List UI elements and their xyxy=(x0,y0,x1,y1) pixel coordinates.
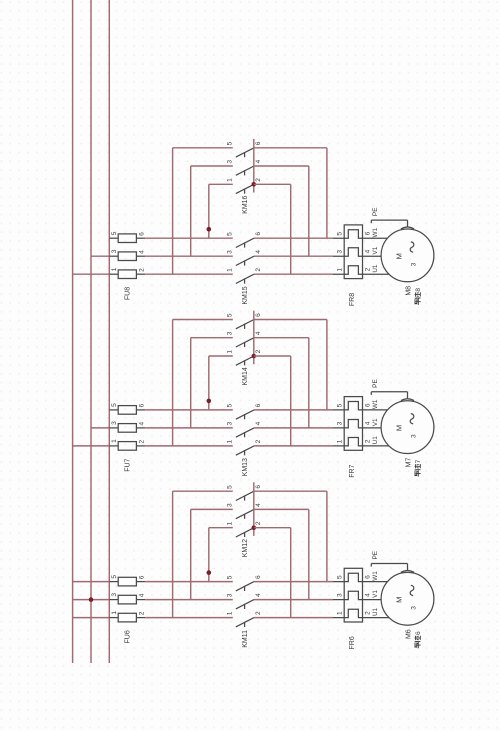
svg-text:5: 5 xyxy=(227,313,234,317)
svg-text:1: 1 xyxy=(111,267,118,271)
svg-text:V1: V1 xyxy=(372,246,379,254)
wire row4 to FR xyxy=(254,255,333,257)
wire L1 feed xyxy=(73,445,110,447)
wire upper row5 xyxy=(173,147,233,149)
wire upper contactor output bar xyxy=(253,311,255,365)
svg-text:1: 1 xyxy=(111,611,118,615)
contactor KM11 contact 5-6 xyxy=(227,575,262,591)
svg-text:4: 4 xyxy=(255,503,262,507)
wire L2 feed xyxy=(91,255,110,257)
wire upper row5 xyxy=(173,490,233,492)
wire upper row1 xyxy=(209,355,233,357)
thermal relay FR8 xyxy=(333,225,372,279)
svg-text:3: 3 xyxy=(227,422,234,426)
fuse FU6 pole 3-4 xyxy=(109,593,145,604)
junction bus2/row3 xyxy=(89,597,94,602)
wire row4 to FR xyxy=(254,599,333,601)
svg-text:KM13: KM13 xyxy=(242,458,249,476)
bus L3 xyxy=(108,0,110,663)
wire tap row1 to upper 5 xyxy=(172,320,174,446)
svg-text:3: 3 xyxy=(111,421,118,425)
wire tap row5 to upper 1 xyxy=(208,184,210,238)
svg-text:1: 1 xyxy=(227,350,234,354)
svg-text:5: 5 xyxy=(227,485,234,489)
svg-text:4: 4 xyxy=(365,593,372,597)
wire cross 4 down xyxy=(308,338,310,428)
heater element 1-2 xyxy=(333,266,363,274)
wire tap row1 to upper 5 xyxy=(172,148,174,274)
svg-text:4: 4 xyxy=(255,331,262,335)
fuse FU6 pole 5-6 xyxy=(109,575,145,586)
junction bar/row2 xyxy=(252,354,257,359)
contactor KM13 contact 1-2 xyxy=(227,439,262,455)
svg-text:2: 2 xyxy=(255,178,262,182)
wire upper out 6 xyxy=(254,319,327,321)
contactor KM11 contact 3-4 xyxy=(227,593,262,609)
heater element 5-6 xyxy=(333,402,363,410)
wire feed row1 xyxy=(73,617,110,619)
svg-text:3: 3 xyxy=(111,249,118,253)
svg-text:3: 3 xyxy=(227,593,234,597)
svg-text:5: 5 xyxy=(337,232,344,236)
wire upper out 4 xyxy=(254,508,309,510)
svg-text:3: 3 xyxy=(410,262,417,266)
svg-text:6: 6 xyxy=(139,232,146,236)
svg-text:6: 6 xyxy=(255,141,262,145)
wire upper row3 xyxy=(191,337,233,339)
wire W1 xyxy=(363,227,389,238)
svg-text:6: 6 xyxy=(365,231,372,235)
wire tap row5 to upper 1 xyxy=(208,356,210,410)
svg-text:2: 2 xyxy=(139,440,146,444)
svg-text:2: 2 xyxy=(255,268,262,272)
svg-text:5: 5 xyxy=(337,575,344,579)
svg-text:M8: M8 xyxy=(405,286,412,296)
heater element 1-2 xyxy=(333,438,363,446)
wire cross 6 down xyxy=(326,148,328,238)
svg-text:1: 1 xyxy=(227,178,234,182)
svg-text:5: 5 xyxy=(227,575,234,579)
svg-text:PE: PE xyxy=(372,379,379,388)
svg-text:M: M xyxy=(395,597,404,603)
heater element 3-4 xyxy=(333,420,363,428)
PE conductor xyxy=(371,379,414,401)
svg-text:U1: U1 xyxy=(372,436,379,445)
svg-text:4: 4 xyxy=(255,250,262,254)
svg-text:6: 6 xyxy=(415,631,422,635)
heater element 5-6 xyxy=(333,573,363,581)
svg-text:4: 4 xyxy=(139,422,146,426)
wire row6 to FR xyxy=(254,237,333,239)
wire upper row1 xyxy=(209,527,233,529)
svg-text:5: 5 xyxy=(111,231,118,235)
wire cross 2 down xyxy=(290,356,292,446)
wire row3 to contactor xyxy=(145,599,233,601)
junction bar/row2 xyxy=(252,182,257,187)
fuse FU8 pole 5-6 xyxy=(109,231,145,242)
svg-text:4: 4 xyxy=(139,593,146,597)
svg-text:2: 2 xyxy=(255,349,262,353)
wire upper row3 xyxy=(191,165,233,167)
svg-text:5: 5 xyxy=(227,141,234,145)
svg-text:4: 4 xyxy=(365,249,372,253)
svg-text:2: 2 xyxy=(365,439,372,443)
svg-text:5: 5 xyxy=(227,232,234,236)
contactor KM14 contact 3-4 xyxy=(227,331,262,347)
motor M6 xyxy=(381,572,434,625)
svg-text:FR6: FR6 xyxy=(349,636,356,649)
svg-text:7: 7 xyxy=(415,459,422,463)
wire row1 to contactor xyxy=(145,445,233,447)
svg-text:3: 3 xyxy=(410,434,417,438)
wire L1 feed xyxy=(73,273,110,275)
wire V1 xyxy=(363,246,383,256)
wire row6 to FR xyxy=(254,581,333,583)
svg-text:2: 2 xyxy=(365,267,372,271)
contactor KM16 contact 1-2 xyxy=(227,178,262,194)
wire row2 to FR xyxy=(254,445,333,447)
svg-text:FU8: FU8 xyxy=(125,287,132,300)
PE conductor xyxy=(371,207,414,229)
svg-text:KM16: KM16 xyxy=(242,195,249,213)
svg-text:W1: W1 xyxy=(372,227,379,237)
wire cross 2 down xyxy=(290,184,292,274)
wire L3 feed xyxy=(108,237,111,239)
svg-text:KM12: KM12 xyxy=(242,539,249,557)
wire tap row1 to upper 5 xyxy=(172,491,174,617)
contactor KM16 contact 5-6 xyxy=(227,141,262,157)
svg-text:2: 2 xyxy=(255,521,262,525)
junction tap row5 xyxy=(207,570,212,575)
svg-text:4: 4 xyxy=(255,421,262,425)
junction tap row5 xyxy=(207,399,212,404)
svg-text:1: 1 xyxy=(337,611,344,615)
svg-text:FR7: FR7 xyxy=(349,464,356,477)
wire upper contactor output bar xyxy=(253,139,255,193)
svg-text:1: 1 xyxy=(227,268,234,272)
wire row5 to contactor xyxy=(145,581,233,583)
wire row6 to FR xyxy=(254,409,333,411)
svg-text:FR8: FR8 xyxy=(349,293,356,306)
svg-text:3: 3 xyxy=(227,331,234,335)
wire U1 xyxy=(363,264,391,274)
svg-text:V1: V1 xyxy=(372,418,379,426)
fuse FU7 pole 5-6 xyxy=(109,403,145,414)
svg-text:6: 6 xyxy=(365,403,372,407)
wire row5 to contactor xyxy=(145,237,233,239)
wire upper contactor output bar xyxy=(253,482,255,536)
heater element 3-4 xyxy=(333,248,363,256)
svg-text:3: 3 xyxy=(410,606,417,610)
svg-text:4: 4 xyxy=(255,593,262,597)
svg-text:U1: U1 xyxy=(372,264,379,273)
wire L2 feed xyxy=(91,427,110,429)
svg-text:V1: V1 xyxy=(372,590,379,598)
contactor KM15 contact 5-6 xyxy=(227,232,262,248)
fuse FU6 pole 1-2 xyxy=(109,611,145,622)
svg-text:2: 2 xyxy=(255,439,262,443)
svg-text:PE: PE xyxy=(372,207,379,216)
heater element 5-6 xyxy=(333,230,363,238)
wire row4 to FR xyxy=(254,427,333,429)
fuse FU8 pole 3-4 xyxy=(109,249,145,260)
contactor KM15 contact 1-2 xyxy=(227,268,262,284)
svg-text:W1: W1 xyxy=(372,571,379,581)
svg-text:1: 1 xyxy=(337,439,344,443)
svg-text:2: 2 xyxy=(365,611,372,615)
wire tap row3 to upper 3 xyxy=(190,166,192,256)
wire cross 2 down xyxy=(290,528,292,618)
contactor KM13 contact 5-6 xyxy=(227,403,262,419)
svg-text:M: M xyxy=(395,425,404,431)
svg-text:3: 3 xyxy=(227,250,234,254)
wire feed row3 xyxy=(73,599,110,601)
wire cross 6 down xyxy=(326,320,328,410)
svg-text:2: 2 xyxy=(255,611,262,615)
svg-text:6: 6 xyxy=(255,403,262,407)
contactor KM14 contact 1-2 xyxy=(227,349,262,365)
wire upper row1 xyxy=(209,183,233,185)
fuse FU7 pole 1-2 xyxy=(109,439,145,450)
contactor KM12 contact 1-2 xyxy=(227,521,262,537)
wire upper out 2 xyxy=(254,183,291,185)
svg-text:5: 5 xyxy=(111,403,118,407)
svg-text:6: 6 xyxy=(365,575,372,579)
wire cross 6 down xyxy=(326,491,328,581)
PE conductor xyxy=(371,550,414,572)
wire tap row3 to upper 3 xyxy=(190,338,192,428)
svg-text:2: 2 xyxy=(139,268,146,272)
svg-text:FU6: FU6 xyxy=(125,630,132,643)
svg-text:3: 3 xyxy=(337,593,344,597)
svg-text:3: 3 xyxy=(337,421,344,425)
svg-text:1: 1 xyxy=(111,439,118,443)
svg-text:4: 4 xyxy=(255,159,262,163)
wire L3 feed xyxy=(108,409,111,411)
contactor KM12 contact 3-4 xyxy=(227,503,262,519)
svg-text:3: 3 xyxy=(337,250,344,254)
svg-text:6: 6 xyxy=(139,404,146,408)
wire W1 xyxy=(363,571,389,582)
thermal relay FR6 xyxy=(333,568,372,622)
svg-text:M: M xyxy=(395,253,404,259)
svg-text:M6: M6 xyxy=(405,629,412,639)
fuse FU7 pole 3-4 xyxy=(109,421,145,432)
wire upper out 6 xyxy=(254,490,327,492)
svg-text:2: 2 xyxy=(139,611,146,615)
svg-text:KM14: KM14 xyxy=(242,367,249,385)
wire tap row3 to upper 3 xyxy=(190,509,192,599)
wire U1 xyxy=(363,436,391,446)
wire upper out 4 xyxy=(254,337,309,339)
svg-text:3: 3 xyxy=(227,160,234,164)
junction tap row5 xyxy=(207,227,212,232)
fuse FU8 pole 1-2 xyxy=(109,267,145,278)
wire row2 to FR xyxy=(254,617,333,619)
svg-text:KM11: KM11 xyxy=(242,630,249,648)
svg-text:8: 8 xyxy=(415,288,422,292)
heater element 1-2 xyxy=(333,609,363,617)
wire feed row5 xyxy=(73,581,110,583)
svg-text:5: 5 xyxy=(337,403,344,407)
wire row1 to contactor xyxy=(145,617,233,619)
wire row3 to contactor xyxy=(145,255,233,257)
wire row2 to FR xyxy=(254,273,333,275)
svg-text:1: 1 xyxy=(337,268,344,272)
svg-text:4: 4 xyxy=(365,421,372,425)
bus L2 xyxy=(90,0,92,663)
wire V1 xyxy=(363,418,383,428)
wire upper out 6 xyxy=(254,147,327,149)
svg-text:6: 6 xyxy=(139,575,146,579)
wire upper out 2 xyxy=(254,355,291,357)
wire upper out 4 xyxy=(254,165,309,167)
svg-text:4: 4 xyxy=(139,250,146,254)
wire V1 xyxy=(363,590,383,600)
thermal relay FR7 xyxy=(333,397,372,451)
wire upper row5 xyxy=(173,319,233,321)
contactor KM16 contact 3-4 xyxy=(227,159,262,175)
svg-text:FU7: FU7 xyxy=(125,458,132,471)
svg-text:6: 6 xyxy=(255,485,262,489)
svg-text:1: 1 xyxy=(227,440,234,444)
wire cross 4 down xyxy=(308,509,310,599)
svg-text:U1: U1 xyxy=(372,607,379,616)
wire row3 to contactor xyxy=(145,427,233,429)
svg-text:W1: W1 xyxy=(372,399,379,409)
heater element 3-4 xyxy=(333,591,363,599)
motor M7 xyxy=(381,401,434,454)
wire upper row3 xyxy=(191,508,233,510)
wire cross 4 down xyxy=(308,166,310,256)
contactor KM15 contact 3-4 xyxy=(227,250,262,266)
svg-text:6: 6 xyxy=(255,313,262,317)
svg-text:6: 6 xyxy=(255,575,262,579)
wire tap row5 to upper 1 xyxy=(208,528,210,582)
wire row5 to contactor xyxy=(145,409,233,411)
bus L1 xyxy=(72,0,74,663)
junction bar/row2 xyxy=(252,525,257,530)
svg-text:M7: M7 xyxy=(405,458,412,468)
motor M8 xyxy=(381,229,434,282)
contactor KM13 contact 3-4 xyxy=(227,421,262,437)
svg-text:1: 1 xyxy=(227,611,234,615)
contactor KM14 contact 5-6 xyxy=(227,313,262,329)
wire U1 xyxy=(363,607,391,617)
svg-text:3: 3 xyxy=(227,503,234,507)
svg-text:KM15: KM15 xyxy=(242,286,249,304)
wire upper out 2 xyxy=(254,527,291,529)
contactor KM12 contact 5-6 xyxy=(227,485,262,501)
svg-text:5: 5 xyxy=(227,404,234,408)
svg-text:3: 3 xyxy=(111,593,118,597)
svg-text:1: 1 xyxy=(227,521,234,525)
svg-text:PE: PE xyxy=(372,550,379,559)
contactor KM11 contact 1-2 xyxy=(227,611,262,627)
wire W1 xyxy=(363,399,389,410)
wire row1 to contactor xyxy=(145,273,233,275)
svg-text:6: 6 xyxy=(255,232,262,236)
svg-text:5: 5 xyxy=(111,575,118,579)
